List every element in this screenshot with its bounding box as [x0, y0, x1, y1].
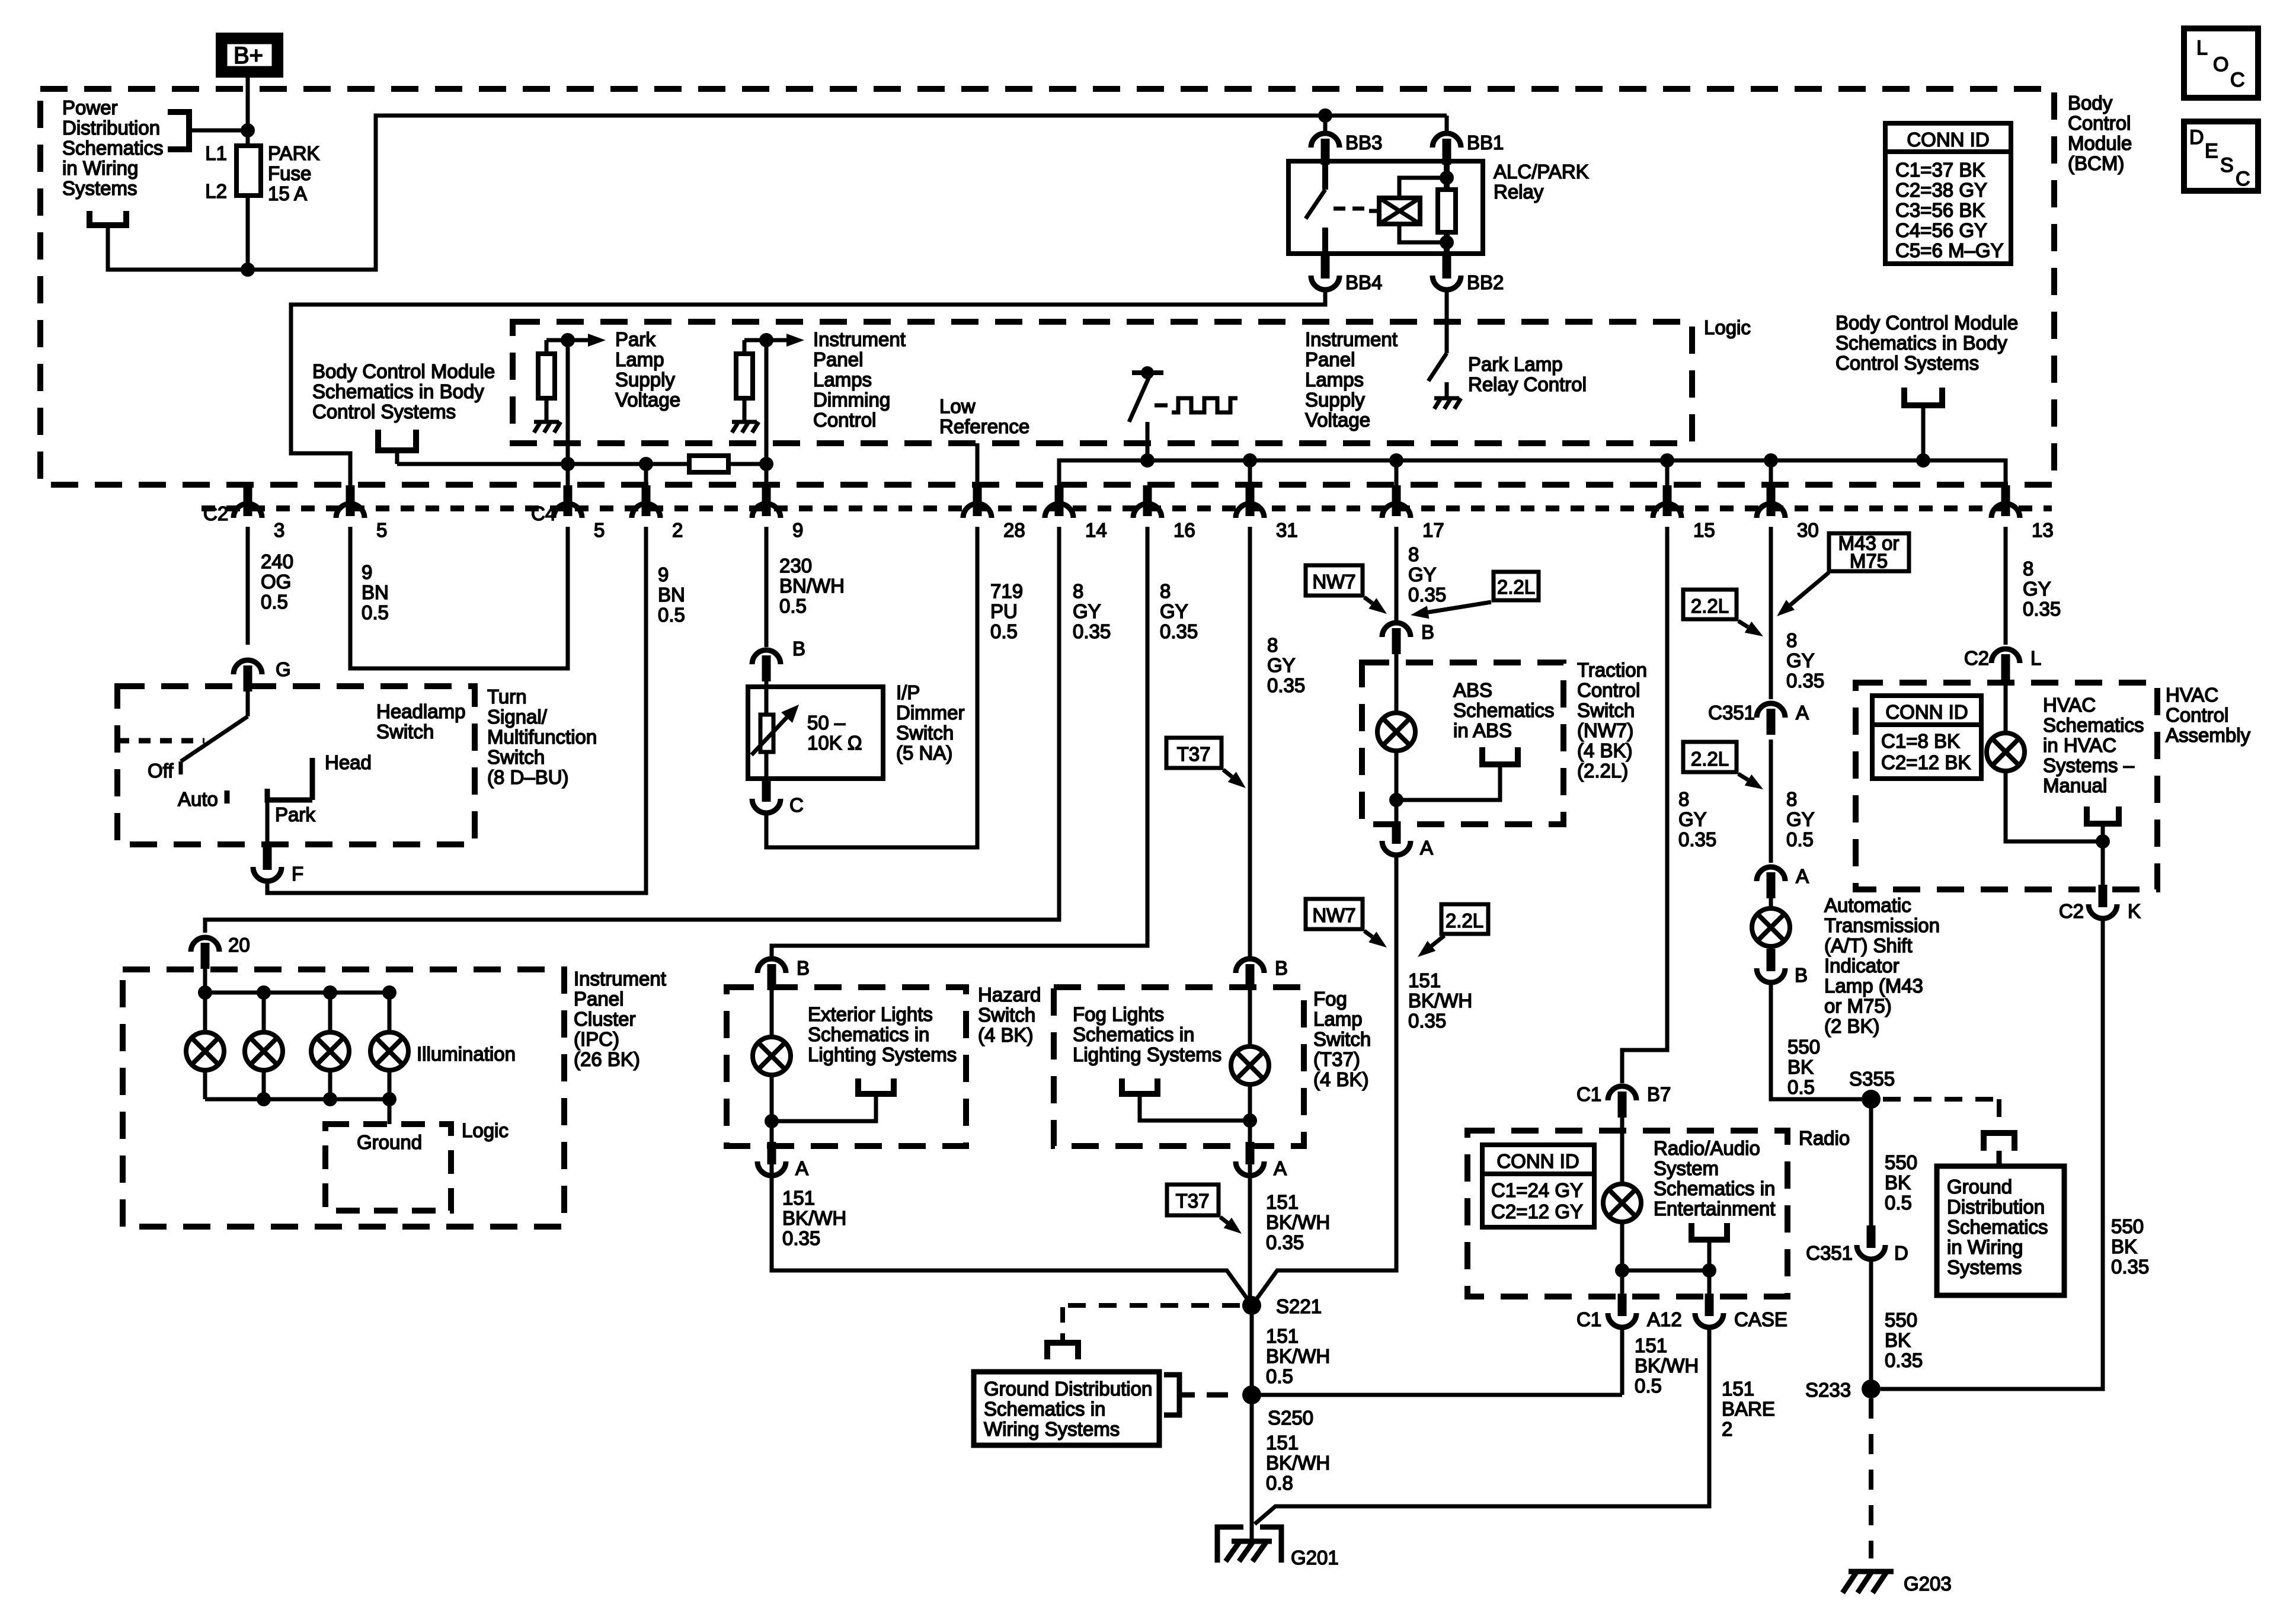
svg-text:A: A	[795, 1157, 808, 1179]
connector C2 pin L (HVAC)	[1991, 649, 2020, 680]
resistor: bus series resistor	[689, 456, 728, 472]
svg-text:GY: GY	[1267, 654, 1296, 676]
svg-text:Systems: Systems	[1947, 1256, 2022, 1278]
radio internal ground bus	[1622, 1269, 1709, 1273]
svg-text:(4 BK): (4 BK)	[1313, 1068, 1369, 1090]
bracket: power distribution reference (upper)	[168, 112, 189, 149]
A/T shift indicator lamp	[1769, 898, 1773, 910]
IPC illumination lamp 1	[186, 1032, 224, 1070]
svg-text:16: 16	[1173, 519, 1195, 541]
svg-text:240: 240	[261, 550, 293, 572]
svg-text:L2: L2	[205, 180, 227, 202]
svg-text:Distribution: Distribution	[1947, 1196, 2045, 1218]
svg-text:Lighting Systems: Lighting Systems	[1073, 1044, 1221, 1065]
svg-text:0.35: 0.35	[1408, 1010, 1446, 1032]
label box T37 (lower)	[1167, 1185, 1219, 1215]
svg-text:or M75): or M75)	[1824, 995, 1892, 1017]
svg-text:Park Lamp: Park Lamp	[1468, 353, 1563, 375]
svg-text:0.5: 0.5	[1266, 1365, 1293, 1387]
svg-text:S: S	[2220, 154, 2234, 177]
wire: pin14 to IPC pin 20	[205, 527, 1059, 933]
svg-text:Fuse: Fuse	[268, 162, 311, 184]
svg-text:I/P: I/P	[896, 681, 920, 703]
wire: fog lamp to junction	[1248, 1084, 1252, 1181]
arrow: 2.2L to wire (lower)	[1418, 936, 1444, 957]
svg-text:(BCM): (BCM)	[2068, 152, 2124, 174]
wire: bottom bus to ground logic box	[388, 1099, 392, 1124]
wire: ABS bracket stem to lamp column	[1396, 764, 1500, 800]
DESC legend box	[2184, 121, 2258, 191]
svg-text:GY: GY	[1073, 600, 1101, 622]
svg-text:Lamp: Lamp	[615, 348, 664, 370]
ground G201 hatch	[1226, 1541, 1272, 1561]
svg-text:0.35: 0.35	[2023, 598, 2061, 620]
svg-text:Schematics: Schematics	[1947, 1216, 2048, 1238]
svg-text:BB4: BB4	[1345, 271, 1382, 293]
svg-text:Instrument: Instrument	[813, 328, 906, 350]
svg-text:F: F	[292, 863, 303, 885]
svg-text:Illumination: Illumination	[417, 1043, 516, 1065]
connector pin B (traction control switch)	[1382, 623, 1411, 654]
CONN ID table (BCM)	[1885, 123, 2011, 264]
svg-text:0.8: 0.8	[1266, 1472, 1293, 1494]
svg-text:T37: T37	[1177, 743, 1211, 765]
I/P dimmer switch box	[748, 687, 883, 779]
svg-text:HVAC: HVAC	[2043, 694, 2096, 716]
svg-text:BN: BN	[362, 581, 389, 603]
svg-text:BB2: BB2	[1467, 271, 1504, 293]
wire: lamp column	[203, 993, 207, 1032]
svg-text:CONN ID: CONN ID	[1885, 701, 1968, 723]
svg-text:BK: BK	[2111, 1235, 2137, 1257]
node: HVAC rail junction	[2096, 834, 2110, 849]
svg-text:0.35: 0.35	[782, 1227, 820, 1249]
svg-text:5: 5	[376, 519, 387, 541]
headlamp switch Head contact	[310, 758, 315, 800]
svg-text:NW7: NW7	[1312, 904, 1355, 926]
wire: radio bracket stem to internal bus	[1707, 1240, 1712, 1270]
node: bus at pin30	[1764, 453, 1778, 468]
dashed reference from S355 to ground distribution bracket (right)	[1883, 1099, 1999, 1129]
svg-text:Voltage: Voltage	[1305, 409, 1370, 431]
BCM connector pin 5 (x=958)	[554, 485, 582, 518]
node: IPC top bus junction 1	[257, 985, 271, 1000]
node: bus at right bracket	[1916, 453, 1930, 468]
svg-text:Supply: Supply	[615, 369, 675, 391]
svg-text:2: 2	[1722, 1418, 1732, 1440]
svg-text:0.35: 0.35	[1885, 1349, 1923, 1371]
ground G203 hatch	[1843, 1571, 1894, 1593]
connector C351 pin A	[1757, 703, 1785, 735]
connector pin A (exterior lights)	[757, 1142, 786, 1176]
bracket: fog lights reference	[1122, 1078, 1157, 1094]
svg-text:Dimmer: Dimmer	[896, 702, 964, 724]
svg-text:C: C	[2230, 69, 2245, 91]
svg-text:L: L	[2030, 647, 2041, 669]
svg-text:0.35: 0.35	[1408, 584, 1446, 606]
headlamp switch inner dotted divider	[117, 738, 204, 744]
wire: lamp column	[262, 993, 266, 1032]
svg-text:550: 550	[1885, 1309, 1917, 1331]
svg-text:Power: Power	[62, 97, 118, 119]
svg-text:GY: GY	[1786, 649, 1815, 671]
wire: S233 dashed down to G203	[1869, 1398, 1873, 1558]
svg-text:Schematics in Body: Schematics in Body	[312, 380, 484, 402]
svg-text:Multifunction: Multifunction	[487, 726, 597, 748]
svg-text:10K Ω: 10K Ω	[807, 732, 862, 754]
svg-text:B: B	[797, 957, 810, 979]
svg-text:BK/WH: BK/WH	[782, 1207, 846, 1229]
svg-text:K: K	[2128, 900, 2141, 922]
wire: lamp column to A12	[1620, 1222, 1625, 1307]
wire: fog A down to S221	[1248, 1175, 1252, 1305]
connector pin BB1	[1432, 133, 1461, 165]
svg-text:B: B	[1421, 621, 1434, 643]
svg-text:B: B	[1795, 964, 1808, 986]
svg-text:GY: GY	[1786, 808, 1815, 830]
BCM connector pin 9 (x=1293)	[752, 485, 781, 518]
svg-text:0.5: 0.5	[658, 604, 685, 626]
arrow: 2.2L to pin30 wire (upper)	[1738, 621, 1763, 636]
svg-text:8: 8	[1267, 634, 1278, 656]
wire: lamp column	[388, 993, 392, 1032]
wire: A/T B down to S355	[1771, 982, 1871, 1099]
arrow: NW7 to wire (upper)	[1364, 597, 1387, 614]
svg-text:M75: M75	[1850, 550, 1888, 572]
svg-text:Lighting Systems: Lighting Systems	[808, 1044, 957, 1065]
svg-text:System: System	[1654, 1157, 1719, 1179]
svg-text:Logic: Logic	[462, 1119, 509, 1141]
HVAC illumination lamp	[2004, 680, 2008, 733]
svg-text:15 A: 15 A	[268, 183, 307, 204]
bracket: box to S250 connection	[1164, 1375, 1228, 1415]
svg-text:C1=24 GY: C1=24 GY	[1491, 1179, 1583, 1201]
svg-text:2.2L: 2.2L	[1691, 748, 1729, 770]
BCM module dashed box (Body Control Module)	[40, 89, 2054, 485]
node: IPC bottom bus junction 1	[257, 1092, 271, 1106]
svg-text:Schematics in: Schematics in	[984, 1398, 1105, 1420]
svg-text:GY: GY	[1160, 600, 1188, 622]
bracket: ABS schematics reference	[1482, 747, 1518, 764]
svg-text:C1: C1	[1576, 1308, 1601, 1330]
node: IPC bottom bus junction 2	[323, 1092, 337, 1106]
svg-text:(NW7): (NW7)	[1577, 719, 1633, 741]
label box M43 or M75	[1829, 532, 1909, 572]
relay coil (solenoid box with X)	[1369, 198, 1420, 224]
svg-text:ALC/PARK: ALC/PARK	[1494, 161, 1589, 183]
svg-text:Park: Park	[275, 804, 315, 825]
arrow: 2.2L to wire (upper)	[1411, 602, 1491, 619]
bracket: BCM schematics reference (right)	[1904, 388, 1942, 405]
svg-text:0.5: 0.5	[362, 601, 389, 623]
wire: pin30 down to C351 A	[1769, 527, 1773, 699]
connector pin A (traction control switch)	[1382, 821, 1411, 855]
svg-text:13: 13	[2032, 519, 2054, 541]
label box NW7 (upper)	[1306, 565, 1363, 596]
svg-text:8: 8	[1160, 580, 1171, 602]
svg-text:C1=37 BK: C1=37 BK	[1895, 159, 1985, 181]
svg-text:Radio: Radio	[1799, 1127, 1850, 1149]
connector pin BB4	[1311, 256, 1339, 290]
node: dimming control arrow junction	[759, 333, 773, 347]
bracket: HVAC schematics reference	[2087, 806, 2119, 824]
BCM connector pin 5 (x=591)	[336, 485, 364, 518]
radio illumination lamp	[1620, 1100, 1625, 1184]
svg-text:Instrument: Instrument	[1305, 328, 1398, 350]
node: ABS junction	[1389, 793, 1403, 807]
wire: coil top loop to BB1 column	[1399, 178, 1447, 198]
svg-text:L1: L1	[205, 142, 227, 164]
wire: lower bracket to fuse bottom node	[108, 225, 248, 270]
svg-text:Control: Control	[813, 409, 876, 431]
svg-text:Schematics in: Schematics in	[1073, 1023, 1194, 1045]
LOC legend box	[2184, 28, 2258, 98]
ground: internal ground under left resistor	[534, 398, 561, 433]
splice S355	[1862, 1090, 1881, 1109]
svg-text:S233: S233	[1805, 1379, 1851, 1401]
svg-text:Voltage: Voltage	[615, 389, 680, 411]
svg-text:OG: OG	[261, 571, 291, 593]
svg-text:230: 230	[779, 555, 812, 577]
svg-text:GY: GY	[2023, 578, 2051, 600]
svg-text:B: B	[1275, 957, 1288, 979]
connector pin B (A/T shift lamp)	[1757, 949, 1785, 982]
wire: C351 D down to S233	[1869, 1259, 1873, 1389]
svg-text:Dimming: Dimming	[813, 389, 890, 411]
svg-text:(4 BK): (4 BK)	[1577, 740, 1633, 761]
svg-text:Switch: Switch	[376, 721, 434, 742]
svg-text:Distribution: Distribution	[62, 117, 160, 139]
exterior lights lamp	[770, 973, 774, 1037]
svg-text:C4=56 GY: C4=56 GY	[1895, 219, 1987, 241]
BCM connector pin 28 (x=1649)	[963, 485, 992, 518]
wire: pin31 drop	[1248, 460, 1252, 486]
svg-text:(4 BK): (4 BK)	[978, 1024, 1034, 1046]
connector pin A (fog lamp switch)	[1236, 1142, 1264, 1176]
relay mechanical link dashes	[1334, 207, 1364, 211]
wire: drop to BB3	[1323, 116, 1328, 132]
svg-text:in HVAC: in HVAC	[2043, 734, 2116, 756]
svg-text:14: 14	[1085, 519, 1107, 541]
node: bus at pin31	[1243, 453, 1257, 468]
svg-text:in Wiring: in Wiring	[62, 157, 138, 179]
resistor: park lamp supply pull (left)	[538, 340, 555, 398]
svg-text:C: C	[789, 794, 804, 816]
svg-text:A12: A12	[1647, 1308, 1682, 1330]
svg-text:BK/WH: BK/WH	[1266, 1452, 1330, 1474]
connector pin B7 (radio C1)	[1608, 1086, 1636, 1118]
svg-text:719: 719	[990, 580, 1023, 602]
ground distribution schematics box (right)	[1937, 1166, 2064, 1295]
node: junction at BB3 column	[1318, 108, 1332, 123]
exterior lights dashed box	[727, 987, 966, 1146]
connector pin G (headlamp switch)	[234, 660, 262, 692]
svg-text:CONN ID: CONN ID	[1907, 129, 1989, 151]
svg-text:Fog: Fog	[1313, 988, 1347, 1010]
svg-text:in Wiring: in Wiring	[1947, 1236, 2023, 1258]
ABS indicator lamp	[1395, 637, 1399, 713]
svg-text:C1=8 BK: C1=8 BK	[1881, 730, 1960, 752]
svg-text:C351: C351	[1708, 702, 1755, 724]
BCM connector pin 3 (x=418)	[234, 485, 262, 518]
BCM connector pin 13 (x=3384)	[1991, 485, 2020, 518]
node: radio bus at lamp column	[1615, 1263, 1629, 1278]
svg-text:15: 15	[1693, 519, 1715, 541]
svg-text:GY: GY	[1408, 564, 1437, 585]
svg-text:Lamp: Lamp	[1313, 1008, 1363, 1030]
wire: lamp column	[328, 993, 332, 1032]
svg-text:(2.2L): (2.2L)	[1577, 760, 1628, 782]
connector row dotted line	[202, 505, 2052, 511]
svg-text:0.35: 0.35	[1160, 620, 1198, 642]
square wave symbol	[1172, 398, 1237, 412]
HVAC dashed box	[1856, 683, 2157, 889]
wire: IPC illumination top bus	[205, 950, 389, 993]
svg-text:151: 151	[1266, 1325, 1299, 1347]
node: exterior lights junction	[765, 1114, 779, 1128]
headlamp switch dashed box	[117, 686, 475, 844]
svg-text:151: 151	[782, 1187, 815, 1209]
node: fuse top junction	[241, 123, 255, 137]
IPC illumination lamp 2	[245, 1032, 283, 1070]
wire: coil bottom loop to BB1 column	[1399, 224, 1447, 242]
svg-text:Logic: Logic	[1704, 316, 1751, 338]
svg-text:BARE: BARE	[1722, 1398, 1775, 1420]
svg-text:C1: C1	[1576, 1083, 1601, 1105]
svg-text:151: 151	[1266, 1191, 1299, 1213]
svg-text:Control: Control	[2166, 704, 2228, 726]
svg-text:Lamps: Lamps	[813, 369, 872, 391]
svg-text:Panel: Panel	[574, 988, 623, 1010]
wire: drop to BB1	[1445, 116, 1449, 132]
svg-text:0.5: 0.5	[990, 620, 1018, 642]
wire: pin5 to C4-5 U loop	[350, 527, 568, 668]
svg-text:Wiring Systems: Wiring Systems	[984, 1418, 1120, 1440]
svg-text:CONN ID: CONN ID	[1496, 1150, 1579, 1172]
wire: pin17 down to traction switch	[1395, 527, 1399, 621]
radio dashed box	[1467, 1131, 1787, 1297]
wire: fuse bottom to relay feed (up-over to BB3/BB1)	[248, 116, 1447, 270]
svg-text:Auto: Auto	[178, 788, 218, 810]
wire: F to pin2 column	[267, 527, 646, 893]
svg-text:(IPC): (IPC)	[574, 1028, 619, 1050]
node: bus at pin16	[1140, 453, 1155, 468]
svg-text:Manual: Manual	[2043, 774, 2107, 796]
label box NW7 (lower)	[1306, 899, 1363, 929]
wire: left bracket stem to internal bus	[395, 450, 399, 464]
wire: ABS lamp to junction	[1395, 751, 1399, 836]
wire: pin 9 column (arrow node to bus)	[765, 340, 769, 486]
node: IPC bottom bus right junction	[382, 1092, 396, 1106]
svg-text:Instrument: Instrument	[574, 968, 666, 990]
svg-text:8: 8	[1786, 629, 1797, 651]
svg-text:S221: S221	[1276, 1295, 1322, 1317]
wire: right bracket stem to bus	[1921, 405, 1926, 460]
wire: B+ to fuse junction	[246, 78, 250, 129]
svg-text:B: B	[792, 638, 805, 660]
svg-text:PARK: PARK	[268, 142, 319, 164]
wire: exterior lamp to junction	[770, 1075, 774, 1181]
bracket: S221 ground distribution reference	[1047, 1343, 1078, 1359]
svg-text:D: D	[2189, 126, 2204, 149]
wire: traction A down to splice S221 leg	[1254, 854, 1396, 1302]
BCM connector pin 30 (x=2988)	[1757, 485, 1785, 518]
ground: internal ground at relay control	[1434, 382, 1461, 409]
svg-text:8: 8	[2023, 558, 2033, 580]
internal bus: IP lamps supply rail (right)	[1059, 460, 2006, 486]
svg-text:A: A	[1274, 1157, 1287, 1179]
headlamp switch lever (to Off)	[181, 674, 248, 774]
wire: upper bracket to fuse top node	[189, 129, 248, 133]
ground G201 frame	[1217, 1527, 1281, 1563]
svg-text:C2: C2	[203, 502, 228, 524]
connector pin B (dimmer)	[752, 650, 781, 681]
svg-text:S355: S355	[1849, 1068, 1895, 1090]
svg-text:0.35: 0.35	[1266, 1231, 1304, 1253]
arrow: IP lamps dimming control	[766, 334, 804, 347]
svg-text:GY: GY	[1678, 808, 1707, 830]
svg-text:B7: B7	[1647, 1083, 1671, 1105]
relay resistor (parallel with coil)	[1438, 148, 1456, 268]
svg-text:2: 2	[672, 519, 683, 541]
variable resistor (dimmer rheostat)	[752, 681, 788, 788]
CONN ID table (HVAC)	[1872, 696, 1981, 779]
svg-text:Schematics in: Schematics in	[808, 1023, 929, 1045]
IPC illumination lamp 4	[370, 1032, 408, 1070]
svg-text:8: 8	[1678, 788, 1689, 810]
node: coil bottom junction	[1440, 235, 1454, 249]
svg-text:Reference: Reference	[939, 415, 1029, 437]
svg-text:Switch: Switch	[487, 746, 545, 768]
svg-text:C2: C2	[1964, 647, 1989, 669]
connector pin C (dimmer)	[752, 779, 781, 813]
svg-text:Body Control Module: Body Control Module	[312, 360, 495, 382]
splice S250	[1242, 1385, 1261, 1404]
PWM dimmer symbol (logic)	[1129, 366, 1168, 422]
svg-text:C3=56 BK: C3=56 BK	[1895, 199, 1985, 221]
svg-text:T37: T37	[1176, 1190, 1210, 1212]
svg-text:0.5: 0.5	[1787, 1076, 1815, 1098]
wire: bracket stem to ground distribution box (right)	[1997, 1151, 2002, 1166]
node: bus at pin2 column	[639, 457, 653, 471]
svg-text:C351: C351	[1806, 1242, 1853, 1264]
svg-text:BK: BK	[1885, 1329, 1911, 1351]
fuse F1 PARK Fuse 15A	[236, 130, 261, 270]
svg-text:BK/WH: BK/WH	[1266, 1211, 1330, 1233]
svg-text:9: 9	[658, 564, 669, 585]
svg-text:8: 8	[1073, 580, 1083, 602]
node: IPC top bus junction 2	[323, 985, 337, 1000]
power symbol B+	[220, 37, 279, 73]
label box 2.2L (pin30 lower)	[1683, 742, 1737, 772]
svg-text:BB3: BB3	[1345, 132, 1382, 153]
svg-text:0.35: 0.35	[1267, 674, 1305, 696]
svg-text:O: O	[2213, 53, 2228, 76]
svg-text:0.5: 0.5	[1786, 828, 1814, 850]
internal bus: BCM park lamp rail (left)	[397, 462, 689, 466]
svg-text:BB1: BB1	[1467, 132, 1504, 153]
svg-text:BK/WH: BK/WH	[1266, 1345, 1330, 1367]
svg-text:Entertainment: Entertainment	[1654, 1198, 1775, 1219]
svg-text:G203: G203	[1904, 1573, 1952, 1595]
svg-text:0.5: 0.5	[1635, 1375, 1662, 1397]
wire: exterior A down and right to S221	[772, 1175, 1250, 1302]
svg-text:C2=12 GY: C2=12 GY	[1491, 1201, 1583, 1222]
connector pin A12 (radio C1)	[1608, 1294, 1636, 1327]
wire: S355 down to C351 D	[1869, 1099, 1873, 1231]
resistor: IP lamps dimming pull (second)	[736, 340, 753, 398]
wire: pin30 drop	[1769, 460, 1773, 486]
